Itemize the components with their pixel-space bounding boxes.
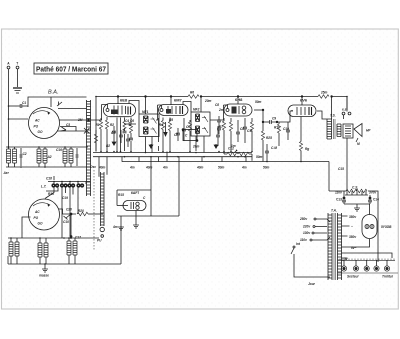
junction node TS [331,96,333,98]
wire bus drops down [99,157,179,216]
oscillator coil T5 [38,238,48,264]
tap labels [344,215,357,261]
mains voltage selector [299,217,330,242]
wire 6M7 to MF2 [183,102,191,113]
svg-text:Jour: Jour [308,282,316,286]
svg-text:T.S.: T.S. [330,114,336,118]
wire MF2 bottom drops [196,136,204,153]
output transformer TS [327,114,341,140]
svg-text:C11: C11 [247,129,253,133]
waveband switch S3 [68,184,75,187]
wire frame antenna loop [28,97,87,109]
svg-text:T.A.: T.A. [331,209,337,213]
svg-text:C9: C9 [272,117,276,121]
wire eye left lead [117,205,128,207]
capacitor C10 [283,122,290,140]
tube 6E8 [103,98,135,117]
capacitor C14 [368,195,379,204]
wire CS left [329,190,346,192]
chassis bus line 1 [93,152,252,154]
tuning gang CV1 [29,108,60,139]
wire diode out [254,109,263,111]
svg-text:masse: masse [39,274,49,278]
oscillator coil T4 [9,238,19,264]
svg-text:5Y3GB: 5Y3GB [381,225,392,229]
capacitor C5b [126,134,130,147]
capacitor C23 [217,125,221,134]
magic eye 6AF7 [123,191,146,211]
svg-text:R16: R16 [48,192,54,196]
wire 6H8 grid lead [210,105,228,120]
resistor R12 [318,91,329,99]
capacitor C18 [46,176,54,181]
svg-text:220v: 220v [302,225,310,229]
wire component leads [125,118,132,152]
svg-text:C13: C13 [336,198,342,202]
junction node det [262,109,264,111]
svg-text:50m: 50m [256,155,263,159]
junction node C17 [70,236,81,240]
ground masse [39,264,49,278]
svg-text:350v: 350v [349,235,356,239]
svg-text:C2: C2 [23,152,27,156]
resistor R5 [168,118,171,152]
wire switch row top [48,182,90,185]
wire eye bottom ground [133,211,139,229]
resistor R7 [219,118,226,152]
screened lead band 1 [87,100,91,196]
wire left edge down [8,106,10,147]
svg-text:20m: 20m [192,145,200,149]
screened lead band 2 [101,172,105,226]
svg-text:PO: PO [34,125,39,129]
antenna terminal A [7,62,10,69]
wire antenna to gang [9,118,29,120]
wire CS right drop [368,191,378,262]
wire 6E8 anode drop [117,97,119,105]
wire grid stopper [158,118,160,151]
magic eye enclosure [117,190,179,226]
ground arrow under 6E8 [112,139,116,145]
wire switch drops [45,188,78,239]
resistor R5b [188,120,191,151]
pickup terminal [97,227,104,242]
IF transformer MF1 [139,110,159,137]
wire MF2 top [200,97,202,113]
wire feed left riser [95,97,97,152]
oscillator coil T6 [67,238,77,264]
resistor R8 [229,118,232,152]
svg-text:40m: 40m [196,166,204,170]
osc labels [48,165,96,200]
resistor R25 [261,131,272,162]
rectifier tube 5Y3GB [362,215,392,239]
svg-text:C16: C16 [56,148,62,152]
wire rect top [369,204,371,215]
terminal strip base [338,272,398,274]
capacitor C7b [182,118,190,141]
capacitor C4 [111,126,116,139]
svg-text:Aer: Aer [3,171,10,175]
svg-text:C18: C18 [46,177,52,181]
wire 6E8 cathode leads [117,118,121,152]
svg-text:4m: 4m [241,166,247,170]
wire gang lower lead [57,130,86,132]
svg-text:Rg: Rg [305,147,309,151]
ground arrow bus1 [149,144,153,148]
svg-text:T: T [16,62,18,66]
resistor R3 [94,130,97,151]
junction dots bus [100,151,302,163]
svg-text:2m: 2m [218,108,224,112]
capacitor det C [216,126,220,146]
antenna coil T1 [7,147,17,167]
wire bus stubs [122,152,246,162]
antenna coil T2 [37,147,52,167]
svg-text:2M: 2M [77,118,83,122]
earth terminal T [16,62,19,69]
ground pickup return [118,226,124,264]
svg-text:C15: C15 [338,167,344,171]
svg-text:50m: 50m [255,100,262,104]
waveband switch S2 [60,184,67,187]
pilot lamp 1 [341,260,346,271]
svg-text:6AF7: 6AF7 [131,191,139,195]
capacitor C1 [9,101,29,108]
capacitor C11 [243,118,247,143]
resistor R2b [123,122,126,131]
tube 6H8 [224,97,252,116]
svg-text:MF2: MF2 [193,108,200,112]
svg-text:L.T.: L.T. [41,185,47,189]
capacitor C7 [174,128,180,141]
capacitor C9 [262,111,293,124]
junction node [88,119,90,121]
svg-text:20m: 20m [204,99,212,103]
resistor network CS [335,186,376,196]
wire pot ends [224,151,252,161]
wire 6V6 anode to TS [317,111,327,119]
resistor R20 [77,209,101,216]
wire coil top bus [6,146,88,148]
junction node anode2 [170,96,172,98]
svg-text:C19: C19 [62,196,68,200]
svg-text:C4: C4 [125,119,129,123]
svg-text:Secteur: Secteur [347,275,359,279]
antenna coil T3 [63,147,73,167]
TA secondary taps [342,216,350,258]
capacitor C5 [119,130,123,143]
ground arrow cathode 6M7 [163,122,167,137]
wire riser to CS [328,162,330,192]
wire 6H8 anode [237,97,239,105]
svg-text:4m: 4m [162,166,168,170]
svg-text:4m: 4m [129,166,135,170]
svg-text:C10: C10 [63,220,69,224]
HT return line [122,161,329,163]
IF transformer MF2 [191,108,210,137]
HT rail [96,96,347,98]
waveband switch S1 [52,184,59,187]
svg-text:GO: GO [38,130,43,134]
trimmer CT1 [57,102,62,107]
svg-text:C.M: C.M [271,146,277,150]
svg-text:C.S.: C.S. [352,186,358,190]
junction dots coil bus [8,146,66,168]
svg-text:R1: R1 [96,123,100,127]
wire 6M7 anode [170,97,172,106]
resistor R1 [96,118,103,151]
wire 6E8 to MF1 [129,101,139,115]
svg-text:R6: R6 [190,91,194,95]
component box under 6M7 [182,129,198,142]
svg-text:1m: 1m [231,144,236,148]
resistor R2 [105,117,114,151]
pilot lamp 2 [353,260,358,271]
wire band link [60,127,90,134]
resistor det R [250,118,253,151]
wire MF1 top [145,97,147,115]
svg-text:M: M [357,142,360,146]
capacitor C3 [61,123,71,131]
capacitor C20 [63,208,72,225]
junction node anode1 [117,96,119,98]
svg-text:B.A.: B.A. [48,90,58,96]
svg-text:GO: GO [38,222,43,226]
svg-text:R5: R5 [169,118,173,122]
svg-text:R15: R15 [118,193,124,197]
resistor Rg cathode [299,117,309,162]
svg-text:130v: 130v [303,231,310,235]
svg-text:~: ~ [351,225,353,229]
capacitor C5c [123,131,127,133]
wire field coil down [346,138,348,191]
tube 6M7 [159,98,189,116]
junction node MF1 [145,96,147,98]
es terminals [342,97,351,120]
oscillator gang CV2 [29,199,60,230]
svg-text:Trolitul: Trolitul [382,275,393,279]
wire cap commons [344,204,370,207]
pilot lamp 3 [364,260,369,271]
svg-text:PU: PU [97,239,102,243]
wire osc coil top bus [8,237,99,239]
svg-text:R25: R25 [266,136,272,140]
ground earth [13,88,22,93]
junction node osc [70,213,72,215]
tube 6V6 [288,98,316,117]
value labels above MF2 [204,99,262,112]
capacitor C16 [56,148,78,166]
svg-text:350v: 350v [349,215,356,219]
wire osc line [22,209,76,238]
svg-text:R2: R2 [106,144,110,148]
svg-text:6M7: 6M7 [174,98,183,103]
dashed screen partition [93,170,95,250]
wire 6V6 screen [301,97,303,106]
terminal strip comb [338,259,395,261]
ground CS [354,207,360,211]
heater wire [342,253,393,258]
svg-text:C20: C20 [66,208,72,212]
misc value labels [77,118,263,159]
junction node MF2 [200,96,202,98]
capacitor C8 [236,120,244,142]
title box [34,63,108,74]
junction node anode3 [237,96,239,98]
bus value labels [98,166,270,170]
svg-text:C8: C8 [215,103,219,107]
junction dots osc bus [10,237,70,265]
svg-text:C17: C17 [75,236,81,240]
pilot lamp 5 [384,260,389,271]
extra junction dots [8,105,253,239]
capacitor C14a [265,144,277,162]
capacitor C13 [336,191,346,204]
svg-text:4m: 4m [112,225,118,229]
svg-text:6E8: 6E8 [120,98,128,103]
wire rect bottom [350,239,370,247]
wire gang to grid line [59,119,96,121]
svg-text:Pathé 607 / Marconi 67: Pathé 607 / Marconi 67 [36,65,106,74]
svg-text:A2: A2 [47,155,52,159]
wire 6M7 grid lead [156,105,162,120]
wire 6E8 grid [96,105,108,121]
resistor R11 [274,122,281,146]
svg-text:50m: 50m [218,166,225,170]
wire coil bottom bus [6,166,91,168]
wire TA to strip [342,259,345,261]
wire osc coil bottom bus [8,256,121,264]
strip labels [347,275,393,279]
resistor R6 [188,91,199,99]
eye labels [112,193,146,229]
junction node screen [301,96,303,98]
svg-text:50m: 50m [263,166,270,170]
resistor R4 [159,118,165,152]
wire MF1 bottom drops [146,137,153,153]
svg-text:6V6: 6V6 [300,98,308,103]
svg-text:250v: 250v [299,217,307,221]
wire HT corner down [346,97,348,111]
svg-text:6H8: 6H8 [235,97,243,102]
svg-text:110v: 110v [300,238,307,242]
wire earth lead down [17,69,19,87]
capacitor C2 [20,148,27,166]
svg-text:AC: AC [34,119,40,123]
waveband switch S4 [77,184,84,187]
svg-text:Osc: Osc [90,165,96,169]
svg-text:PO: PO [34,216,39,220]
ground arrow bus2 [214,144,218,148]
svg-text:AC: AC [34,210,40,214]
capacitor C6 [124,119,136,126]
junction dots rail [95,96,348,215]
pilot lamp 4 [374,260,379,271]
resistor R2c [129,124,133,140]
speaker cone HP [354,124,371,147]
svg-text:R20: R20 [78,209,84,213]
wire det vertical [262,110,264,131]
wire HT to TS primary [331,97,333,120]
svg-text:40m: 40m [145,166,153,170]
speaker field coil [343,124,353,138]
volume potentiometer P1 [224,147,252,156]
svg-text:25m: 25m [320,91,328,95]
wire antenna lead down [8,69,10,106]
svg-text:C1: C1 [22,101,26,105]
power transformer TA [328,209,342,281]
wire osc drop [70,214,72,237]
chassis bus line 2 [93,156,252,158]
mains switch [291,246,330,277]
capacitor C22 [217,116,221,125]
